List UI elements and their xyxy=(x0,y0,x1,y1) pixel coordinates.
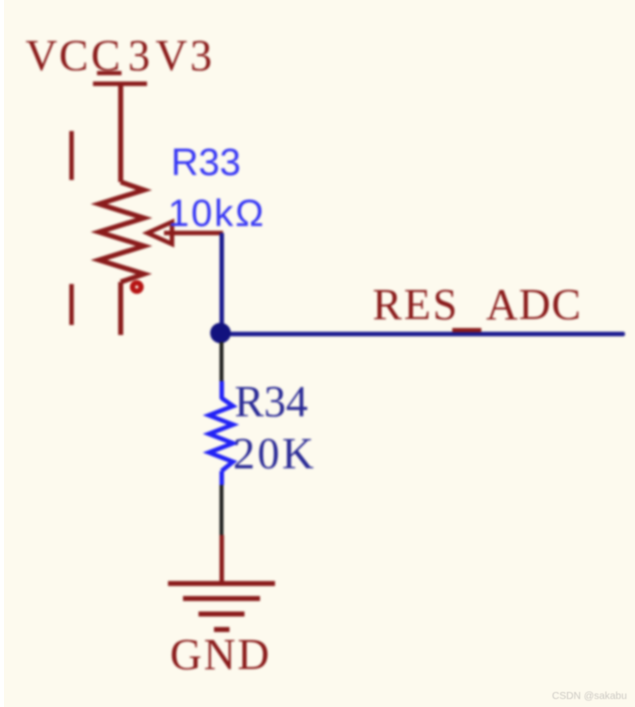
svg-text:10kΩ: 10kΩ xyxy=(168,193,266,235)
svg-text:RES: RES xyxy=(373,280,460,329)
svg-text:R33: R33 xyxy=(171,142,241,184)
svg-text:20K: 20K xyxy=(233,429,316,478)
svg-text:ADC: ADC xyxy=(486,280,582,329)
svg-text:CSDN @sakabu: CSDN @sakabu xyxy=(552,691,627,702)
svg-text:GND: GND xyxy=(170,630,271,679)
svg-text:R34: R34 xyxy=(235,377,308,426)
